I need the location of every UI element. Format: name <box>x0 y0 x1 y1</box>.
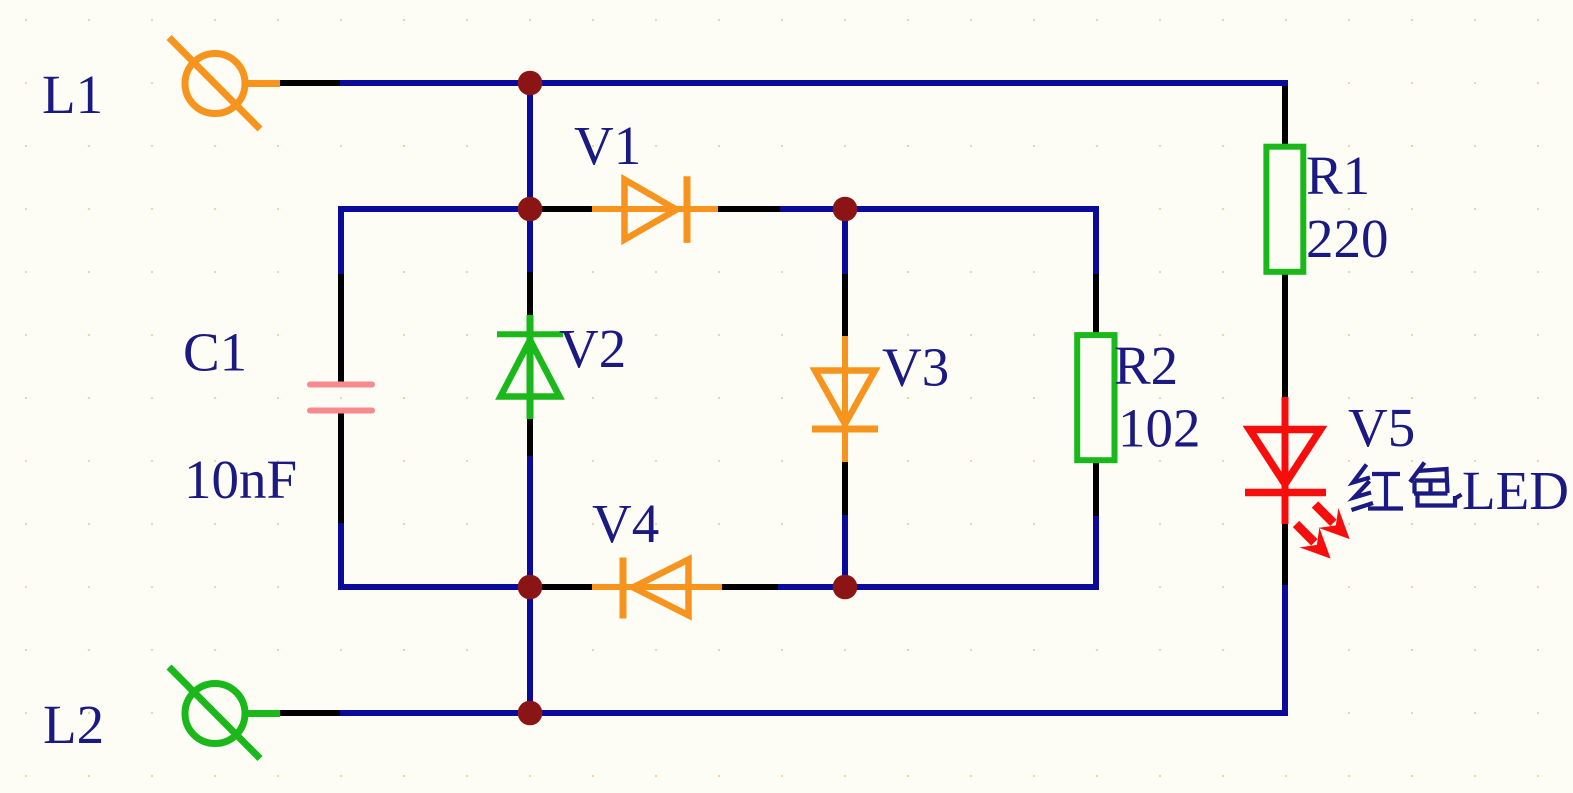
wire top bus navy from x=340 to right corner x=1285 at y=83 <box>340 83 1285 89</box>
LED V5 arrow 2 <box>1286 514 1340 568</box>
wire black pin below V3 <box>842 461 848 516</box>
svg-text:220: 220 <box>1306 208 1389 269</box>
diode V1 <box>592 176 718 243</box>
wire black pin right of V4 <box>722 584 778 590</box>
svg-text:V5: V5 <box>1348 397 1415 458</box>
wire black pin left of V1 <box>530 206 592 212</box>
diode V2 <box>497 315 563 419</box>
wire black pin between R1 bottom and V5 <box>1282 274 1288 398</box>
wire black pin above V3 <box>842 274 848 337</box>
resistor R2 <box>1077 335 1114 460</box>
wire black pin left of V4 <box>530 584 592 590</box>
wire navy segment V1 right to junction (845,209) <box>780 206 845 212</box>
terminal L1 <box>169 38 280 130</box>
svg-text:V1: V1 <box>574 115 641 176</box>
svg-text:102: 102 <box>1118 398 1201 459</box>
diode V4 <box>592 558 722 619</box>
wire navy from junction (845,209) to corner (1096,209) down to R2 <box>845 209 1096 275</box>
junction at (530,83) <box>518 71 543 96</box>
LED V5 arrow 1 <box>1305 495 1359 549</box>
label V5 value red LED (hand-drawn CJK strokes 红色) <box>1352 463 1462 511</box>
wire V3 column navy above <box>842 209 848 275</box>
wire black pin below V2 <box>527 416 533 457</box>
wire navy segment V4 right to junction (845,587) <box>778 584 845 590</box>
svg-text:10nF: 10nF <box>184 449 297 510</box>
wire V2 column navy below to junction (530,587) <box>527 456 533 587</box>
svg-text:R2: R2 <box>1114 335 1178 396</box>
svg-text:V4: V4 <box>592 493 659 554</box>
svg-text:L1: L1 <box>42 64 103 125</box>
terminal L2 <box>169 667 280 759</box>
wire inner top line from corner (341,209) to junction (530,209) <box>341 209 530 212</box>
LED V5 <box>1245 397 1326 524</box>
wire vertical x=530 from top bus to inner top line <box>527 83 533 209</box>
wire black pin right of V1 <box>718 206 780 212</box>
junction at (530,587) <box>518 575 543 600</box>
wire black pin above C1 <box>338 274 344 382</box>
junction at (530,713) <box>518 701 543 726</box>
svg-text:L2: L2 <box>43 694 104 755</box>
wire black pin below R2 <box>1093 462 1099 516</box>
wire black pin below C1 <box>338 413 344 523</box>
wire black pin from L1 stub to top bus at y=83 <box>279 80 340 86</box>
wire black pin from L2 stub to bottom bus <box>279 710 340 716</box>
svg-text:V3: V3 <box>882 337 949 398</box>
wire left vertical x=341 navy lower part to corner (341,587) <box>341 523 530 587</box>
junction at (845,587) <box>833 575 858 600</box>
wire V3 column navy below to junction (845,587) <box>842 515 848 587</box>
wire black pin above V2 <box>527 272 533 317</box>
junction at (845,209) <box>833 197 858 222</box>
wire black pin above R2 <box>1093 274 1099 334</box>
wire V2 column navy above <box>527 209 533 273</box>
capacitor C1 <box>310 385 372 411</box>
junction at (530,209) <box>518 197 543 222</box>
svg-text:LED: LED <box>1462 460 1569 521</box>
wire black pin above R1 (below top-right corner) <box>1282 86 1288 144</box>
wire vertical x=530 from (530,587) to bottom bus (530,713) <box>527 587 533 713</box>
diode V3 <box>812 336 878 462</box>
svg-text:V2: V2 <box>559 318 626 379</box>
wire left vertical x=341 navy upper part <box>338 209 344 275</box>
svg-text:C1: C1 <box>183 322 247 383</box>
wire right vertical navy from below V5 to bottom bus corner <box>1280 585 1285 713</box>
svg-text:R1: R1 <box>1306 145 1370 206</box>
wire black pin below V5 <box>1282 523 1288 586</box>
wire navy from below R2 to inner bottom line corner (1096,587) <box>845 516 1096 587</box>
resistor R1 <box>1266 147 1303 272</box>
wire bottom bus navy from x=338 to right corner x=1285 at y=713 <box>338 710 1285 716</box>
